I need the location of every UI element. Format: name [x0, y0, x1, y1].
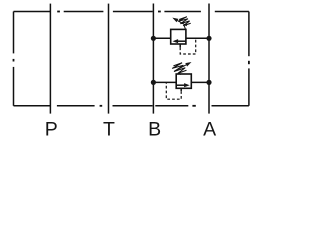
- relief valve V1 flow arrow: [173, 39, 186, 43]
- plate boundary top chain line: [14, 11, 249, 13]
- wire valve V2 to A: [191, 81, 209, 83]
- port line P: [49, 4, 51, 114]
- junction dot on A (top): [206, 36, 211, 41]
- relief valve V2 pilot stub: [180, 88, 182, 91]
- relief valve V2 adjustment arrow: [174, 62, 191, 71]
- plate boundary right chain line: [248, 12, 250, 106]
- junction dot on B (bottom): [151, 80, 156, 85]
- svg-text:A: A: [203, 118, 216, 140]
- wire B to valve V1: [153, 37, 170, 39]
- port line B: [152, 4, 154, 114]
- relief valve V1 pilot stub: [179, 44, 181, 47]
- relief valve V1 spring: [178, 17, 191, 29]
- relief valve V1 adjustment arrow: [172, 18, 187, 26]
- wire valve V1 to A: [186, 37, 209, 39]
- junction dot on B (top): [151, 36, 156, 41]
- plate boundary left chain line: [13, 12, 15, 106]
- plate boundary bottom chain line: [14, 105, 249, 107]
- svg-text:T: T: [103, 118, 115, 140]
- relief valve V2 pilot line (dashed): [166, 82, 181, 99]
- svg-text:P: P: [45, 118, 58, 140]
- port line T: [108, 4, 110, 114]
- wire B to valve V2: [153, 81, 176, 83]
- relief valve V1 pilot line (dashed): [180, 38, 196, 54]
- relief valve V1 body: [171, 29, 186, 44]
- port line A: [208, 4, 210, 114]
- relief valve V2 spring: [172, 63, 186, 75]
- relief valve V2 flow arrow: [176, 83, 189, 87]
- relief valve V2 body: [176, 74, 191, 88]
- svg-text:B: B: [148, 118, 161, 140]
- junction dot on A (bottom): [206, 80, 211, 85]
